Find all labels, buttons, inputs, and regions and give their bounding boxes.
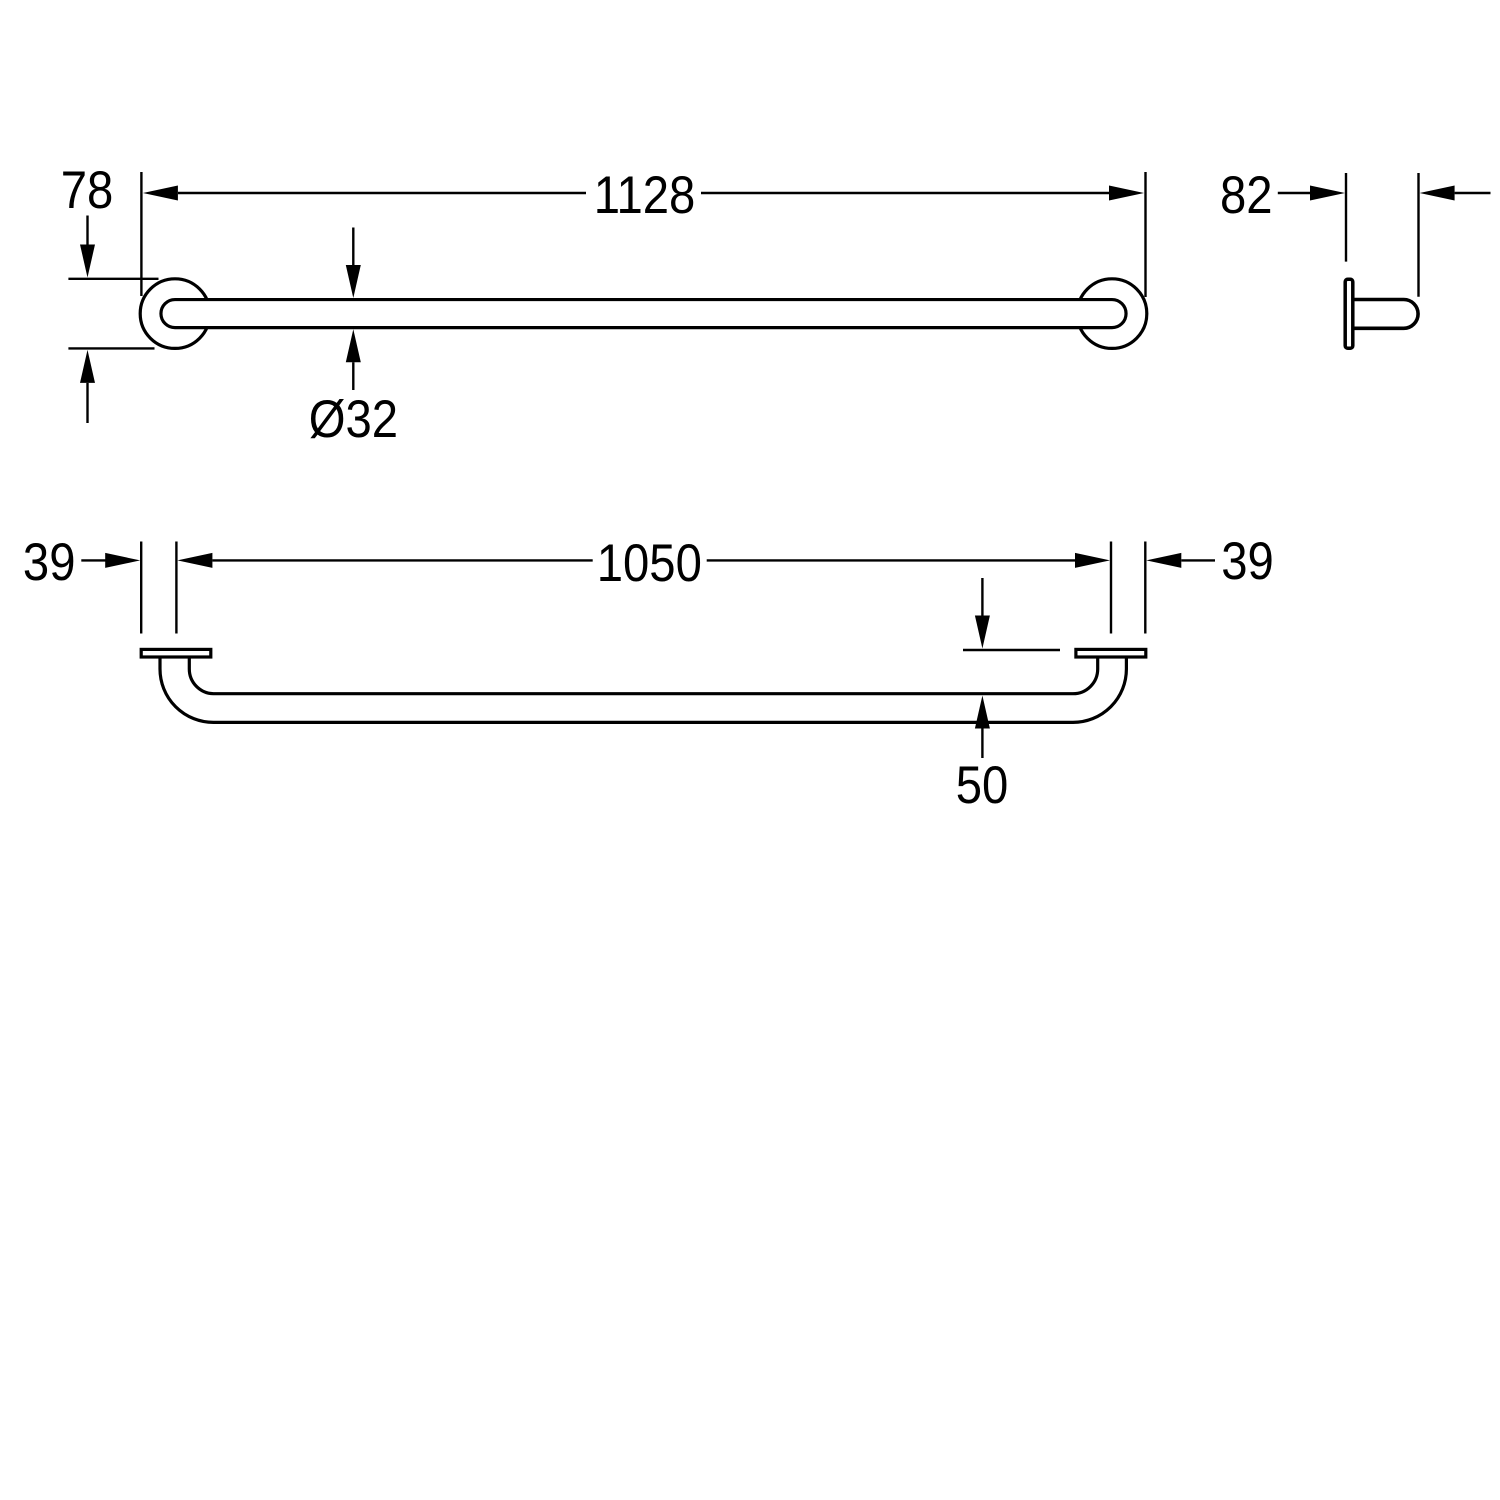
dimension 50: upper arrow tail: [981, 578, 983, 616]
dimension 1128: right arrowhead: [1109, 186, 1144, 201]
svg-text:50: 50: [956, 756, 1009, 815]
dimension 50: upper arrowhead (down): [975, 616, 990, 649]
dimension 1128: left extension line: [140, 172, 142, 296]
flange left (wall rose), circle: [140, 279, 210, 349]
dimension 39 left: right-pointing arrowhead: [105, 553, 140, 568]
dimension 1128: line right segment: [701, 192, 1109, 194]
dimension 39 left: left extension line: [140, 542, 142, 634]
dimension Ø32: upper arrowhead (down): [346, 265, 361, 298]
dimension 82: right extension line: [1417, 173, 1419, 297]
dimension 1050: right arrowhead (right pointing): [1075, 553, 1110, 568]
dimension 39 right: right extension line: [1144, 542, 1146, 634]
dimension 1050: right line segment: [707, 559, 1075, 561]
grab bar tube (stadium shape with rounded ends): [161, 300, 1126, 328]
dimension Ø32: upper arrow tail: [352, 228, 354, 267]
dimension 1050: left line segment: [212, 559, 592, 561]
plan right wall plate: [1076, 649, 1146, 657]
dimension 82: left arrowhead (right pointing): [1310, 186, 1345, 201]
dimension 78: lower arrowhead (up): [80, 350, 95, 383]
dimension 82: right arrowhead (left pointing): [1420, 186, 1455, 201]
dimension 1050 / 39 right: shared extension line: [1110, 542, 1112, 634]
svg-text:78: 78: [61, 161, 114, 220]
dimension 82: left line segment: [1278, 192, 1312, 194]
dimension 1128: line left segment: [178, 192, 586, 194]
plan left wall plate: [141, 649, 211, 657]
svg-text:Ø32: Ø32: [309, 390, 398, 449]
side view: wall plate (edge-on): [1345, 279, 1353, 348]
dimension 82: right line segment: [1455, 192, 1491, 194]
dimension 1050: left arrowhead (left pointing): [177, 553, 212, 568]
dimension 39 right: outside line segment: [1181, 559, 1215, 561]
plan bar tube (U-shaped pipe outline): [160, 655, 1126, 722]
flange right (wall rose), circle: [1077, 279, 1147, 349]
dimension 78: upper arrowhead (down): [80, 245, 95, 278]
svg-text:39: 39: [23, 533, 76, 592]
dimension 39 left / 1050: shared extension line: [175, 542, 177, 634]
svg-text:1050: 1050: [597, 534, 702, 593]
dimension 1128: right extension line: [1144, 172, 1146, 297]
side view: bar stub (tube seen from side with round cap): [1354, 300, 1418, 329]
dimension 50: lower arrowhead (up): [975, 696, 990, 729]
svg-text:39: 39: [1221, 532, 1274, 591]
dimension 78: lower arrow tail: [86, 383, 88, 423]
dimension 50: lower arrow tail: [981, 729, 983, 759]
svg-text:82: 82: [1220, 166, 1273, 225]
dimension 39 right: left-pointing arrowhead: [1146, 553, 1181, 568]
svg-text:1128: 1128: [594, 166, 696, 225]
dimension 78: upper arrow tail: [86, 216, 88, 247]
dimension 78: upper reference line: [68, 278, 158, 280]
dimension Ø32: lower arrow tail: [352, 362, 354, 390]
dimension 50: wall reference line: [963, 649, 1060, 651]
dimension 1128: left arrowhead: [143, 186, 178, 201]
dimension 39 left: outside line segment: [81, 559, 107, 561]
dimension 78: lower reference line: [68, 347, 154, 349]
dimension Ø32: lower arrowhead (up): [346, 329, 361, 362]
dimension 82: left extension line: [1345, 173, 1347, 262]
